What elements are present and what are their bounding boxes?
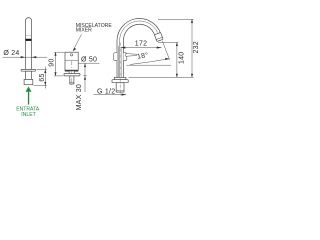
aerator axis extension	[162, 41, 169, 60]
mixer body seam	[65, 59, 78, 61]
mixer threaded stem	[70, 76, 74, 84]
mixer neck	[69, 71, 74, 74]
232 bottom arrow	[191, 74, 193, 78]
mixer stem thread tick	[70, 81, 74, 83]
mixer body dark bottom	[65, 70, 78, 72]
spout collar right bracket	[124, 53, 127, 61]
svg-text:Ø 24: Ø 24	[3, 50, 19, 57]
angle horizontal reference	[126, 64, 171, 66]
svg-text:232: 232	[193, 41, 200, 53]
base extension line	[129, 76, 194, 78]
spout aerator	[154, 32, 163, 41]
mixer body dot	[70, 54, 72, 56]
dimension 90 bottom arrow	[54, 72, 56, 76]
dimension 90 line	[55, 52, 57, 76]
dimension 65 bottom arrow	[44, 82, 46, 86]
spout outer arc	[117, 19, 161, 78]
stem bottom line	[116, 90, 124, 92]
svg-text:MAX 30: MAX 30	[76, 84, 83, 110]
G 1/2 leader arrow	[122, 94, 127, 96]
232 top arrow	[191, 19, 193, 23]
spout base plate	[112, 80, 128, 83]
handle black band	[26, 39, 32, 41]
inlet arrow green	[26, 87, 32, 105]
lever handle	[126, 54, 137, 57]
dimension 140 line	[176, 42, 178, 77]
dimension Ø 24 line	[3, 56, 48, 58]
dimension 90 top arrow	[54, 52, 56, 56]
handle lower stem	[25, 71, 31, 79]
handle nut	[24, 79, 33, 84]
dimension 232 extension top	[158, 18, 194, 20]
mixer center axis	[71, 61, 73, 86]
leader MISCELATORE line	[73, 34, 81, 50]
mixer flange	[64, 73, 80, 76]
mixer body front view	[65, 52, 78, 71]
dimension MAX 30 line	[84, 63, 86, 92]
dimension 65 extension top	[37, 68, 47, 70]
Ø 50 leader line	[78, 62, 99, 64]
dimension 232 line	[191, 19, 193, 77]
dimension Ø 24 right arrow	[32, 56, 37, 58]
angle arc arrow	[165, 58, 170, 60]
spout highlight arc left	[118, 46, 120, 77]
140 top arrow	[176, 42, 178, 46]
svg-text:18°: 18°	[136, 51, 148, 61]
dimension 172 line	[121, 47, 162, 49]
dimension 65 top arrow	[44, 69, 46, 73]
172 right arrow	[157, 47, 162, 49]
spout highlight arc inner	[120, 21, 158, 77]
140 bottom arrow	[176, 74, 178, 78]
dimension 140 extension top	[158, 41, 178, 43]
dimension 65 extension bottom	[34, 85, 47, 87]
MAX 30 tick	[83, 75, 86, 77]
MAX 30 top arrow	[84, 64, 86, 68]
dimension Ø 24 left arrow	[21, 56, 26, 58]
G 1/2 leader line	[94, 94, 127, 96]
leader arrow	[73, 48, 76, 52]
handle trim line	[26, 35, 32, 37]
spout collar left bracket	[114, 53, 117, 61]
svg-text:172: 172	[135, 41, 147, 48]
svg-text:MIXER: MIXER	[76, 28, 92, 34]
MAX 30 lower arrow	[84, 76, 86, 80]
172 left arrow	[121, 47, 126, 49]
svg-text:140: 140	[179, 52, 186, 64]
dimension 90 extension top	[54, 51, 64, 53]
spout center axis	[119, 43, 121, 96]
dimension 65 line	[44, 67, 46, 89]
spout threaded stem	[116, 83, 124, 92]
svg-text:65: 65	[39, 73, 46, 81]
svg-text:G 1/2: G 1/2	[97, 88, 115, 95]
svg-text:INLET: INLET	[21, 112, 35, 118]
dimension 90 extension bottom	[54, 75, 63, 77]
column inner shade line	[121, 47, 123, 77]
handle side view body	[26, 18, 32, 70]
handle flange	[21, 69, 36, 71]
spout base collar	[114, 77, 126, 79]
angle 18 arc	[130, 59, 169, 65]
spout inner arc	[123, 24, 154, 77]
svg-text:Ø 50: Ø 50	[81, 57, 97, 64]
svg-text:90: 90	[48, 58, 55, 66]
